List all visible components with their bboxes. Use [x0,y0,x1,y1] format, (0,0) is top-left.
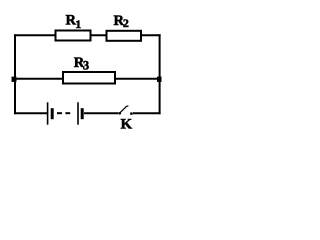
node: right junction [157,77,162,82]
wire: top horizontal [14,34,161,36]
node: left junction [12,77,17,82]
switch K right contact [130,112,133,115]
wire: middle horizontal [14,78,161,80]
wire: bottom right segment [133,112,161,114]
svg-text:2: 2 [123,16,129,30]
svg-text:K: K [121,117,133,133]
switch K left contact [118,112,121,115]
wire: right vertical [159,34,161,114]
svg-text:1: 1 [75,17,81,31]
wire: bottom left segment [14,112,47,114]
resistor R2 [107,31,142,41]
resistor R1 [56,31,91,41]
battery cell 2 short plate [81,108,84,119]
label R2 [114,13,129,30]
resistor R3 [63,72,115,84]
label R1 [66,13,82,31]
battery cell 2 long plate [77,102,79,124]
wire: bottom middle segment [84,112,118,114]
svg-text:3: 3 [83,59,89,73]
label R3 [74,55,89,73]
battery cell 1 short plate [51,108,54,119]
switch K lever [120,106,128,113]
wire: left vertical [14,34,16,114]
wire: bottom dashed between cells [57,112,70,114]
battery cell 1 long plate [47,102,49,124]
